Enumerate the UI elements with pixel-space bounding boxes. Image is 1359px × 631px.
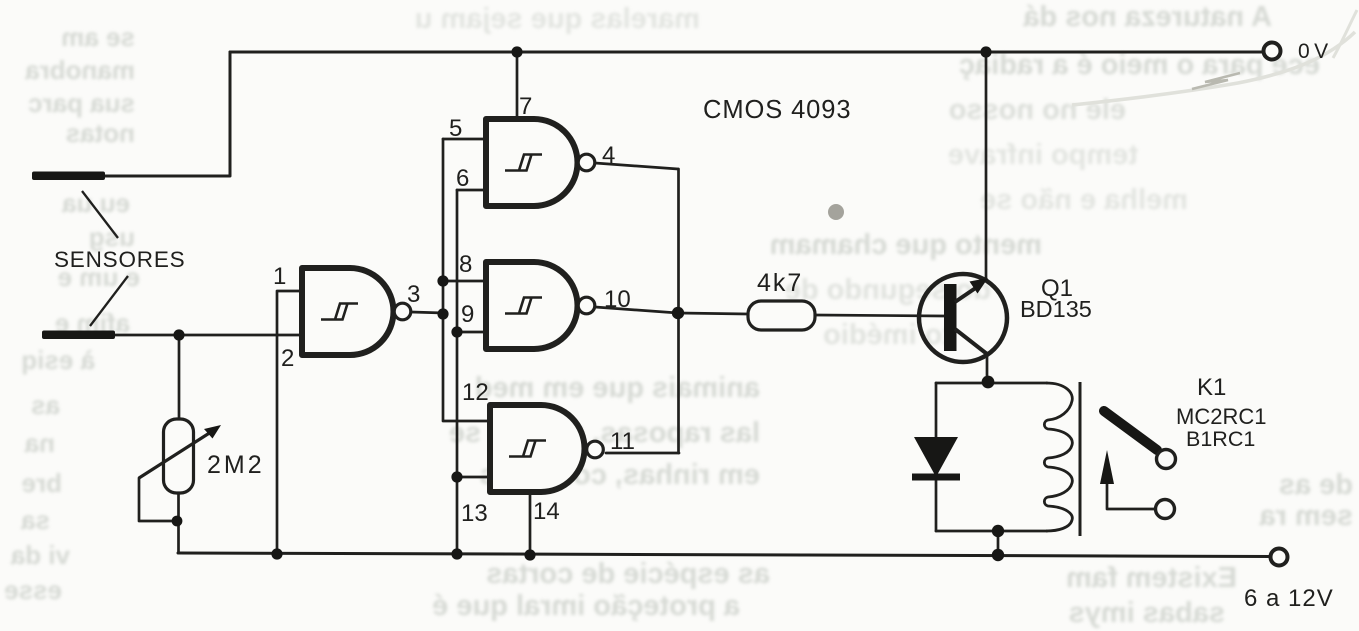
- NAND gate U1C: [486, 262, 595, 349]
- svg-text:2: 2: [281, 345, 294, 372]
- svg-text:9: 9: [461, 301, 474, 328]
- wire Q1 emitter to 0V rail: [985, 52, 988, 281]
- wire node B to resistor 4k7: [678, 313, 748, 314]
- wire relay to +V rail: [997, 531, 1000, 555]
- svg-text:7: 7: [519, 93, 532, 120]
- wire U1A pin1 to bottom rail: [277, 291, 302, 555]
- relay contact NC: [1156, 500, 1175, 519]
- svg-text:CMOS 4093: CMOS 4093: [703, 96, 851, 124]
- wire U1B pin5 stub: [443, 138, 486, 141]
- wire 0V top rail: [230, 51, 1263, 54]
- wire U1B pin6 stub: [457, 189, 486, 192]
- leader line to sensor 2: [90, 276, 128, 326]
- wire node B vertical (pin4/pin11 to pin10 node): [677, 169, 680, 453]
- junction line A / pin 8: [437, 275, 448, 286]
- leader line to sensor 1: [82, 191, 118, 238]
- svg-text:12: 12: [462, 379, 489, 406]
- svg-text:6: 6: [456, 165, 469, 192]
- svg-text:6 a 12V: 6 a 12V: [1244, 585, 1334, 612]
- wire 4k7 to Q1 base: [814, 315, 944, 316]
- wire U1D pin14 to +V rail: [529, 492, 532, 556]
- wire U1B output pin4: [595, 163, 678, 169]
- svg-text:0V: 0V: [1298, 40, 1333, 63]
- wire relay top link: [936, 382, 1047, 385]
- wire 2M2 bottom lead: [177, 491, 180, 553]
- svg-text:14: 14: [533, 498, 560, 525]
- junction relay / +V drop: [992, 525, 1004, 537]
- svg-text:1: 1: [273, 263, 286, 290]
- junction pin1 / +V rail: [271, 548, 282, 559]
- svg-text:2M2: 2M2: [207, 451, 265, 479]
- junction line B / pin 13: [451, 471, 462, 482]
- junction Q1 emitter / 0V rail: [980, 46, 991, 57]
- resistor 2M2 body: [164, 419, 194, 493]
- svg-text:5: 5: [449, 115, 462, 142]
- relay coil K1: [1044, 383, 1072, 531]
- svg-text:4k7: 4k7: [757, 269, 803, 297]
- wire line A (pins 5,8,12 bus): [443, 139, 490, 421]
- terminal +6-12V: [1271, 549, 1288, 566]
- op... NAND gate U1A: [302, 268, 411, 355]
- svg-text:8: 8: [459, 251, 472, 278]
- wire sensor 2 to gate U1A pin 2: [110, 334, 302, 337]
- wire Q1 collector drop: [986, 353, 989, 382]
- sensor bar 1: [32, 172, 105, 181]
- ink smudge (decorative): [828, 204, 844, 220]
- svg-text:4: 4: [602, 142, 615, 169]
- junction line B / +V rail: [451, 548, 462, 559]
- junction line A / gate1 output: [437, 308, 448, 319]
- wire 2M2 wiper return: [139, 478, 176, 521]
- wire U1D pin13 stub: [457, 476, 490, 479]
- NAND gate U1D: [490, 405, 603, 492]
- sensor bar 2: [42, 331, 115, 340]
- svg-text:10: 10: [604, 286, 631, 313]
- junction 2M2 wiper node: [172, 516, 183, 527]
- ghost bleed-through text (decorative): [900, 1, 1272, 34]
- junction line B / pin 9: [451, 326, 462, 337]
- junction node B: [672, 307, 684, 319]
- paper crease swoosh (decorative): [1072, 10, 1357, 105]
- junction pin14 / +V rail: [524, 549, 535, 560]
- resistor 2M2 wiper arrow: [139, 425, 221, 478]
- relay actuation arrow: [1100, 450, 1114, 484]
- svg-text:B1RC1: B1RC1: [1186, 427, 1255, 451]
- junction sensor/2M2 node: [173, 329, 184, 340]
- wire U1A output node A to line A: [411, 312, 444, 313]
- diode D1: [912, 437, 960, 481]
- wire U1C pin8 stub: [443, 280, 486, 283]
- wire U1C pin9 stub: [457, 331, 486, 334]
- svg-text:13: 13: [461, 500, 488, 527]
- wire diode cathode lead: [935, 480, 938, 531]
- svg-text:3: 3: [407, 281, 420, 308]
- wire 2M2 top lead: [178, 335, 181, 421]
- wire relay bottom link: [936, 530, 1047, 533]
- junction pin7 / 0V rail: [511, 46, 522, 57]
- wire diode anode lead: [935, 383, 938, 439]
- relay contact NO: [1157, 450, 1176, 469]
- transistor Q1: [919, 274, 1007, 362]
- relay core bar: [1079, 382, 1082, 536]
- wire U1D output pin11: [606, 452, 679, 455]
- resistor 4k7 body: [748, 301, 815, 330]
- relay contact arm: [1104, 411, 1157, 450]
- junction relay drop / +V rail: [992, 549, 1004, 561]
- wire U1B pin7 to 0V rail: [516, 52, 519, 119]
- junction Q1 collector / relay node: [982, 376, 995, 389]
- svg-text:MC2RC1: MC2RC1: [1176, 404, 1266, 429]
- wire relay contact arm pivot: [1107, 483, 1156, 509]
- wire line B (pins 6,9,13 to +V rail): [456, 190, 459, 555]
- svg-text:BD135: BD135: [1020, 296, 1092, 322]
- svg-text:11: 11: [610, 428, 635, 455]
- svg-text:SENSORES: SENSORES: [54, 247, 185, 272]
- wire 6-12V bottom rail: [178, 553, 1271, 557]
- wire U1C output pin10 to node B: [595, 307, 678, 313]
- terminal 0V: [1264, 43, 1281, 60]
- svg-text:K1: K1: [1197, 374, 1226, 401]
- wire top-left drop to sensor 1: [100, 52, 230, 176]
- NAND gate U1B: [486, 119, 595, 206]
